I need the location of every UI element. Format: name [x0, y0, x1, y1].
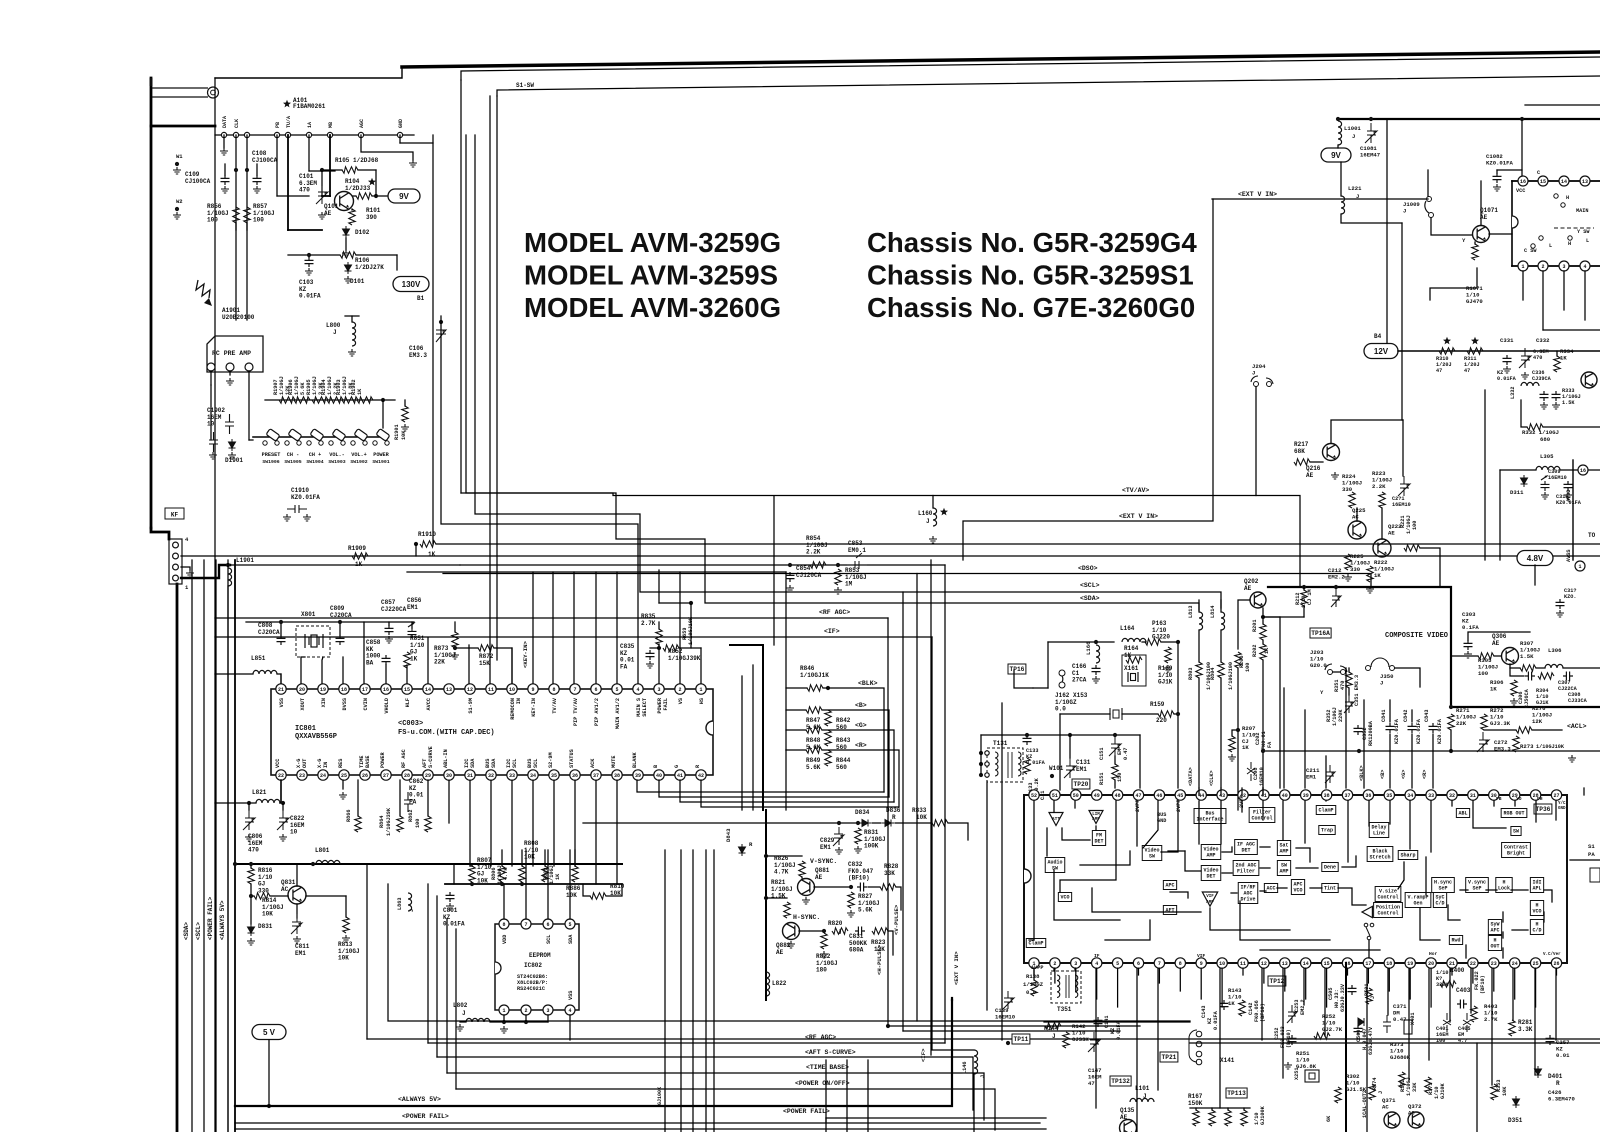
block FM DET — [1092, 831, 1105, 846]
svg-text:(BF10): (BF10) — [1480, 975, 1486, 994]
svg-text:X401: X401 — [1410, 1013, 1416, 1025]
inductor L802 — [466, 1018, 490, 1022]
svg-text:33K: 33K — [884, 870, 895, 877]
svg-text:12V: 12V — [1374, 347, 1389, 356]
wire — [752, 665, 754, 810]
resistor R659 label — [682, 628, 688, 640]
resistor R851 — [404, 652, 410, 668]
label A1901 — [222, 307, 255, 321]
svg-text:RGB OUT: RGB OUT — [1503, 811, 1524, 817]
testpoint TP20 — [1072, 779, 1090, 789]
label — [1332, 707, 1338, 726]
inductor L221 label — [1348, 185, 1362, 192]
svg-text:470: 470 — [1533, 355, 1542, 361]
wire — [1074, 968, 1076, 971]
wire bottom right drop — [1476, 1043, 1478, 1132]
svg-text:L813: L813 — [1188, 606, 1194, 618]
wire main 5V bus — [235, 863, 622, 865]
svg-text:16EM10: 16EM10 — [1548, 475, 1567, 481]
switch SW1904 — [307, 429, 324, 446]
svg-text:10K: 10K — [338, 955, 349, 962]
wire jungle pin drop — [1470, 968, 1472, 1013]
junction — [1176, 712, 1180, 716]
svg-text:14: 14 — [1303, 961, 1309, 967]
junction — [1025, 733, 1029, 737]
junction — [1302, 585, 1306, 589]
inductor L822 label — [772, 980, 787, 987]
svg-text:L1001: L1001 — [1344, 125, 1361, 132]
IC jungle top pin 41 — [1259, 790, 1269, 800]
svg-text:<POWER ON/OFF>: <POWER ON/OFF> — [795, 1080, 850, 1087]
svg-text:AMP: AMP — [1206, 853, 1215, 859]
wire R105 left — [322, 169, 342, 171]
svg-text:XOUT: XOUT — [300, 698, 306, 710]
capacitor C1910 label — [291, 487, 320, 501]
wire — [765, 996, 767, 1000]
IC jungle body — [1024, 795, 1567, 963]
label 1.8K — [348, 382, 354, 395]
label tuner pin GND — [398, 119, 404, 128]
ground C829 — [835, 847, 843, 854]
wire to R106 — [288, 254, 340, 256]
IC jungle bottom pin 17 — [1363, 958, 1373, 968]
svg-text:D102: D102 — [355, 229, 370, 236]
svg-text:<R>: <R> — [855, 742, 867, 749]
label 6K — [1326, 1115, 1332, 1122]
svg-text:150: 150 — [1117, 773, 1123, 782]
resistor R842 label — [836, 717, 851, 731]
label — [1023, 981, 1044, 988]
svg-text:R151: R151 — [1099, 773, 1105, 785]
wire IC801 pin drop x533 — [532, 780, 534, 866]
svg-text:ClamP: ClamP — [1318, 808, 1333, 814]
RC preamp pin — [245, 363, 253, 371]
diode D311 — [1521, 475, 1528, 487]
svg-text:2: 2 — [678, 687, 681, 693]
IC jungle top pin 46 — [1154, 790, 1164, 800]
capacitor C854 label — [796, 565, 822, 579]
resistor R1907 — [279, 397, 295, 403]
svg-text:L160: L160 — [918, 510, 933, 517]
resistor R151 label — [1099, 773, 1105, 785]
wire feed C842 — [1411, 734, 1413, 788]
ground R831 — [854, 846, 862, 853]
resistor R820 — [832, 928, 848, 934]
wire IC801 pin up — [573, 572, 575, 684]
svg-text:27CA: 27CA — [1072, 677, 1087, 684]
IC jungle top pin 38 — [1321, 790, 1331, 800]
svg-text:18: 18 — [341, 687, 347, 693]
wire gnd pin over — [400, 142, 433, 144]
IC jungle top pin 37 — [1342, 790, 1352, 800]
label AVSS — [1566, 550, 1572, 562]
wire — [470, 865, 472, 867]
label KZ0.01FA — [1437, 718, 1443, 744]
resistor R142 label — [1072, 1023, 1089, 1043]
svg-text:Control: Control — [1377, 895, 1398, 901]
resistor R1904 — [327, 397, 343, 403]
wire IC801 pin drop x512 — [511, 780, 513, 866]
wire bus x706 — [705, 850, 707, 1132]
testpoint TP12 — [1268, 976, 1286, 986]
label S1 — [1588, 843, 1595, 850]
junction — [1261, 749, 1265, 753]
svg-text:C331: C331 — [1500, 337, 1514, 344]
svg-text:SW: SW — [1052, 866, 1058, 872]
junction — [233, 862, 237, 866]
svg-text:R159: R159 — [1150, 701, 1165, 708]
svg-text:8: 8 — [502, 922, 505, 928]
svg-text:RES: RES — [338, 759, 344, 768]
capacitor C252 — [1288, 1035, 1297, 1045]
junction — [249, 862, 253, 866]
label — [1334, 989, 1340, 1008]
svg-text:GJ1.5K: GJ1.5K — [1346, 1086, 1367, 1093]
label R — [855, 742, 867, 749]
IC jungle top pin 34 — [1405, 790, 1415, 800]
block IdI APL — [1530, 878, 1543, 893]
svg-text:MUTE: MUTE — [611, 756, 617, 768]
resistor P163 — [1145, 639, 1161, 645]
IC jungle bottom pin 7 — [1154, 958, 1164, 968]
wire SDA — [569, 850, 571, 919]
wire jungle pin drop — [1136, 968, 1138, 1132]
wire — [1563, 271, 1565, 310]
inductor L166 label — [1085, 641, 1092, 655]
wire — [1420, 548, 1440, 587]
wire — [1510, 668, 1524, 676]
capacitor C862 — [404, 792, 413, 812]
wire — [1198, 600, 1200, 612]
wire L221 to right — [1341, 214, 1402, 223]
svg-text:3.3K: 3.3K — [1518, 1026, 1533, 1033]
block right edge — [1590, 868, 1600, 882]
wire IF long — [215, 636, 932, 638]
svg-text:V-SYNC.: V-SYNC. — [810, 858, 837, 865]
resistor R223r — [1379, 492, 1385, 508]
supply 130V oval — [393, 277, 429, 292]
wire 5V down — [268, 1040, 270, 1106]
wire x1280 drop — [1279, 617, 1281, 788]
resistor R271 — [1448, 714, 1454, 730]
svg-text:560: 560 — [836, 764, 847, 771]
svg-text:19: 19 — [1407, 961, 1413, 967]
ground — [209, 452, 217, 459]
svg-text:EM2.2: EM2.2 — [1300, 999, 1306, 1015]
supply 9V oval — [388, 189, 420, 203]
label SCL — [546, 935, 552, 944]
capacitor C310 — [1564, 481, 1573, 491]
block SW — [1511, 827, 1521, 836]
wire jungle internal 47 — [1460, 889, 1468, 891]
inductor L305 — [1536, 466, 1560, 470]
svg-text:11: 11 — [1240, 961, 1246, 967]
label IC801 BUS — [527, 759, 533, 768]
svg-text:L305: L305 — [1540, 453, 1554, 460]
svg-text:D101: D101 — [350, 278, 365, 285]
capacitor C109 label — [185, 171, 211, 185]
label IC801 ACK — [590, 758, 596, 768]
svg-text:ACK: ACK — [590, 758, 596, 768]
resistor R207 label — [1242, 725, 1256, 751]
resistor R164 — [1126, 657, 1142, 663]
connector J162 label — [1055, 692, 1088, 713]
svg-text:17: 17 — [1365, 961, 1371, 967]
resistor R847 label — [806, 717, 821, 731]
label 1CAL-OUT2 — [1362, 1090, 1368, 1118]
svg-text:Drive: Drive — [1240, 897, 1255, 903]
svg-text:AE: AE — [324, 210, 332, 217]
label V-PULSE — [893, 904, 900, 935]
svg-text:L: L — [1586, 238, 1589, 244]
label J — [1356, 193, 1359, 200]
wire IC801 pin up — [700, 648, 702, 684]
resistor R332 label — [1522, 429, 1559, 436]
wire left border thick lower — [176, 584, 179, 1132]
svg-text:10: 10 — [1219, 961, 1225, 967]
wire jungle pin down — [1367, 968, 1369, 983]
IC jungle top pin 39 — [1301, 790, 1311, 800]
wire — [1243, 1108, 1245, 1110]
wire jungle internal 25 — [1493, 801, 1495, 806]
svg-text:GJ10K: GJ10K — [1440, 1083, 1446, 1099]
capacitor C108 label — [252, 150, 278, 164]
wire — [1348, 668, 1350, 672]
label — [1480, 975, 1486, 994]
IC801 pin 3 — [654, 684, 664, 694]
ground W1 — [173, 167, 181, 174]
svg-text:15: 15 — [404, 687, 410, 693]
svg-text:43: 43 — [1219, 793, 1225, 799]
svg-text:16: 16 — [1580, 468, 1586, 474]
svg-text:J: J — [1380, 679, 1383, 686]
block SyC CD — [1433, 893, 1446, 908]
svg-text:9V: 9V — [1331, 151, 1341, 160]
diode D101 label — [350, 278, 365, 285]
svg-text:V.C/Ver: V.C/Ver — [1543, 952, 1561, 957]
wire jungle internal 36 — [1296, 848, 1310, 862]
connector J350 — [1366, 658, 1395, 671]
wire feed 1284 — [1283, 688, 1285, 788]
label — [1524, 688, 1530, 708]
wire — [1033, 687, 1048, 689]
block RGB OUT — [1501, 809, 1527, 818]
label — [1260, 1105, 1266, 1125]
IC jungle top pin 31 — [1468, 790, 1478, 800]
svg-text:10K: 10K — [916, 814, 927, 821]
resistor R133 label — [1028, 783, 1034, 795]
junction 5V — [267, 1104, 271, 1108]
svg-text:R1910: R1910 — [418, 531, 436, 538]
inductor L306 label — [1548, 647, 1562, 654]
resistor R814 — [254, 893, 270, 899]
wire — [1262, 640, 1264, 644]
wire bottom edge line — [235, 1128, 1046, 1130]
ground C101 — [318, 212, 326, 219]
label B — [855, 702, 867, 709]
svg-text:GJ3.3K: GJ3.3K — [1490, 720, 1511, 727]
label — [1368, 1026, 1374, 1055]
ground R251 — [1284, 1062, 1292, 1069]
svg-text:H: H — [1566, 195, 1569, 201]
svg-text:L821: L821 — [252, 789, 267, 796]
resistor R804 label — [1210, 668, 1216, 680]
capacitor C151 trim — [1109, 736, 1121, 756]
label R659 value — [688, 616, 694, 645]
label R1906 — [288, 379, 294, 395]
resistor R873 label — [434, 645, 456, 666]
svg-text:150K: 150K — [1188, 1100, 1203, 1107]
inductor L851 — [253, 670, 277, 674]
resistor R311 label — [1464, 356, 1480, 374]
IC jungle bottom pin 11 — [1238, 958, 1248, 968]
svg-text:15K: 15K — [479, 660, 490, 667]
svg-text:D311: D311 — [1510, 489, 1524, 496]
label EXT V IN top — [1238, 191, 1277, 198]
resistor R809 label — [543, 868, 549, 880]
resistor R334 — [1554, 356, 1560, 372]
svg-text:100: 100 — [1478, 670, 1489, 677]
svg-text:MAIN: MAIN — [1576, 208, 1588, 214]
node W101 — [1050, 774, 1054, 778]
svg-text:EM1: EM1 — [1306, 773, 1317, 780]
svg-text:PA: PA — [1588, 851, 1595, 858]
svg-text:S1: S1 — [1588, 843, 1595, 850]
tuner pin 1A — [306, 132, 311, 137]
label 1VPP — [1031, 965, 1043, 971]
label 10K — [401, 430, 407, 440]
wire — [1536, 667, 1545, 669]
svg-text:AFC: AFC — [1490, 928, 1499, 934]
svg-text:470: 470 — [299, 187, 310, 194]
wire — [501, 850, 503, 866]
svg-text:6K: 6K — [1326, 1115, 1332, 1122]
resistor R851 label — [410, 635, 425, 662]
svg-text:FA: FA — [620, 663, 628, 670]
svg-text:EM1: EM1 — [295, 950, 306, 957]
resistor R864 label — [386, 807, 392, 836]
label — [1368, 720, 1374, 746]
wire — [814, 886, 851, 888]
label R — [749, 841, 753, 848]
capacitor C841 label — [1381, 710, 1387, 722]
svg-text:D843: D843 — [725, 828, 732, 842]
resistor R273 — [1513, 736, 1519, 752]
resistor R310 — [1439, 348, 1455, 354]
label — [1300, 999, 1306, 1015]
inductor L166 — [1096, 645, 1100, 663]
label tuner pin 1A — [307, 122, 313, 128]
resistor R307 label — [1520, 640, 1540, 660]
svg-text:W101: W101 — [1049, 765, 1064, 772]
label SW1904 — [306, 459, 323, 465]
junction — [1449, 705, 1453, 709]
wire SCL — [547, 850, 549, 919]
wire — [1340, 162, 1342, 196]
ground R822 — [820, 951, 828, 958]
wire ALWAYS 5V bus — [235, 1000, 952, 1106]
wire bottom strand x826 — [825, 1060, 827, 1132]
svg-text:AMP: AMP — [1092, 818, 1100, 822]
IC jungle notch — [1024, 869, 1031, 883]
switch SW1901 — [373, 429, 390, 446]
junction L1901 — [226, 563, 230, 567]
IC jungle bottom pin 25 — [1530, 958, 1540, 968]
IC801 pin 33 — [507, 770, 517, 780]
crystal X161 — [1128, 672, 1138, 682]
wire — [1142, 641, 1145, 643]
resistor R251 label — [1296, 1050, 1317, 1070]
wire pin feed — [1241, 788, 1243, 795]
wire — [342, 780, 344, 789]
label 3.9K — [318, 382, 324, 395]
resistor R808 label — [524, 840, 539, 861]
label 680 — [1540, 436, 1551, 443]
resistor R804 — [1218, 662, 1224, 678]
inductor L800 label — [326, 322, 341, 329]
diode D351 label — [1508, 1117, 1523, 1124]
wire — [1122, 713, 1158, 715]
label C SW — [1524, 248, 1537, 254]
IC IC801 body — [271, 689, 713, 775]
ground W2 — [173, 212, 181, 219]
svg-text:SW1906: SW1906 — [262, 459, 279, 465]
capacitor C332 label — [1536, 337, 1550, 344]
resistor R202 — [1260, 644, 1266, 660]
IC jungle bottom pin 1 — [1029, 958, 1039, 968]
capacitor C306 label — [1518, 692, 1524, 704]
svg-text:8: 8 — [552, 687, 555, 693]
block Rwd — [1449, 936, 1462, 945]
wire jungle internal 6 — [1095, 826, 1097, 830]
wire — [1451, 655, 1478, 657]
label IC801 AFT — [422, 759, 428, 768]
svg-text:26: 26 — [1553, 961, 1559, 967]
junction — [788, 563, 792, 567]
wire jungle internal 19 — [1368, 801, 1370, 826]
svg-text:<G>: <G> — [855, 722, 867, 729]
svg-text:180: 180 — [816, 967, 827, 974]
svg-text:1.5K: 1.5K — [1562, 400, 1575, 406]
block V ramp Gen — [1405, 893, 1431, 908]
label H-PULSE — [876, 944, 883, 975]
IC jungle bottom pin 8 — [1175, 958, 1185, 968]
svg-text:AVSS: AVSS — [1566, 550, 1572, 562]
wire bus R1910 long — [436, 543, 1600, 545]
IC jungle top pin 36 — [1363, 790, 1373, 800]
label SW1905 — [284, 459, 301, 465]
resistor R133 — [1024, 758, 1030, 774]
svg-text:10: 10 — [207, 421, 215, 428]
transistor Q371 label — [1382, 1097, 1396, 1110]
wire Q831 collector — [296, 864, 298, 886]
IC802 pin 8 — [499, 919, 509, 929]
wire jungle internal 16 — [1304, 801, 1306, 843]
label — [1412, 1082, 1418, 1092]
RC preamp A1901 box — [207, 336, 263, 372]
svg-text:Chassis No. G5R-3259S1: Chassis No. G5R-3259S1 — [867, 260, 1194, 291]
svg-text:1VPP: 1VPP — [1031, 965, 1043, 971]
wire pin28 — [427, 780, 429, 816]
label IC801 XIN — [321, 698, 327, 707]
crystal X161 box — [1122, 655, 1146, 686]
inductor L305 label — [1540, 453, 1554, 460]
junction — [1094, 640, 1098, 644]
switch SW1906 — [263, 429, 280, 446]
svg-text:AC: AC — [281, 886, 289, 893]
wire J1009 up — [1427, 170, 1429, 196]
capacitor C313 label — [1564, 588, 1576, 600]
